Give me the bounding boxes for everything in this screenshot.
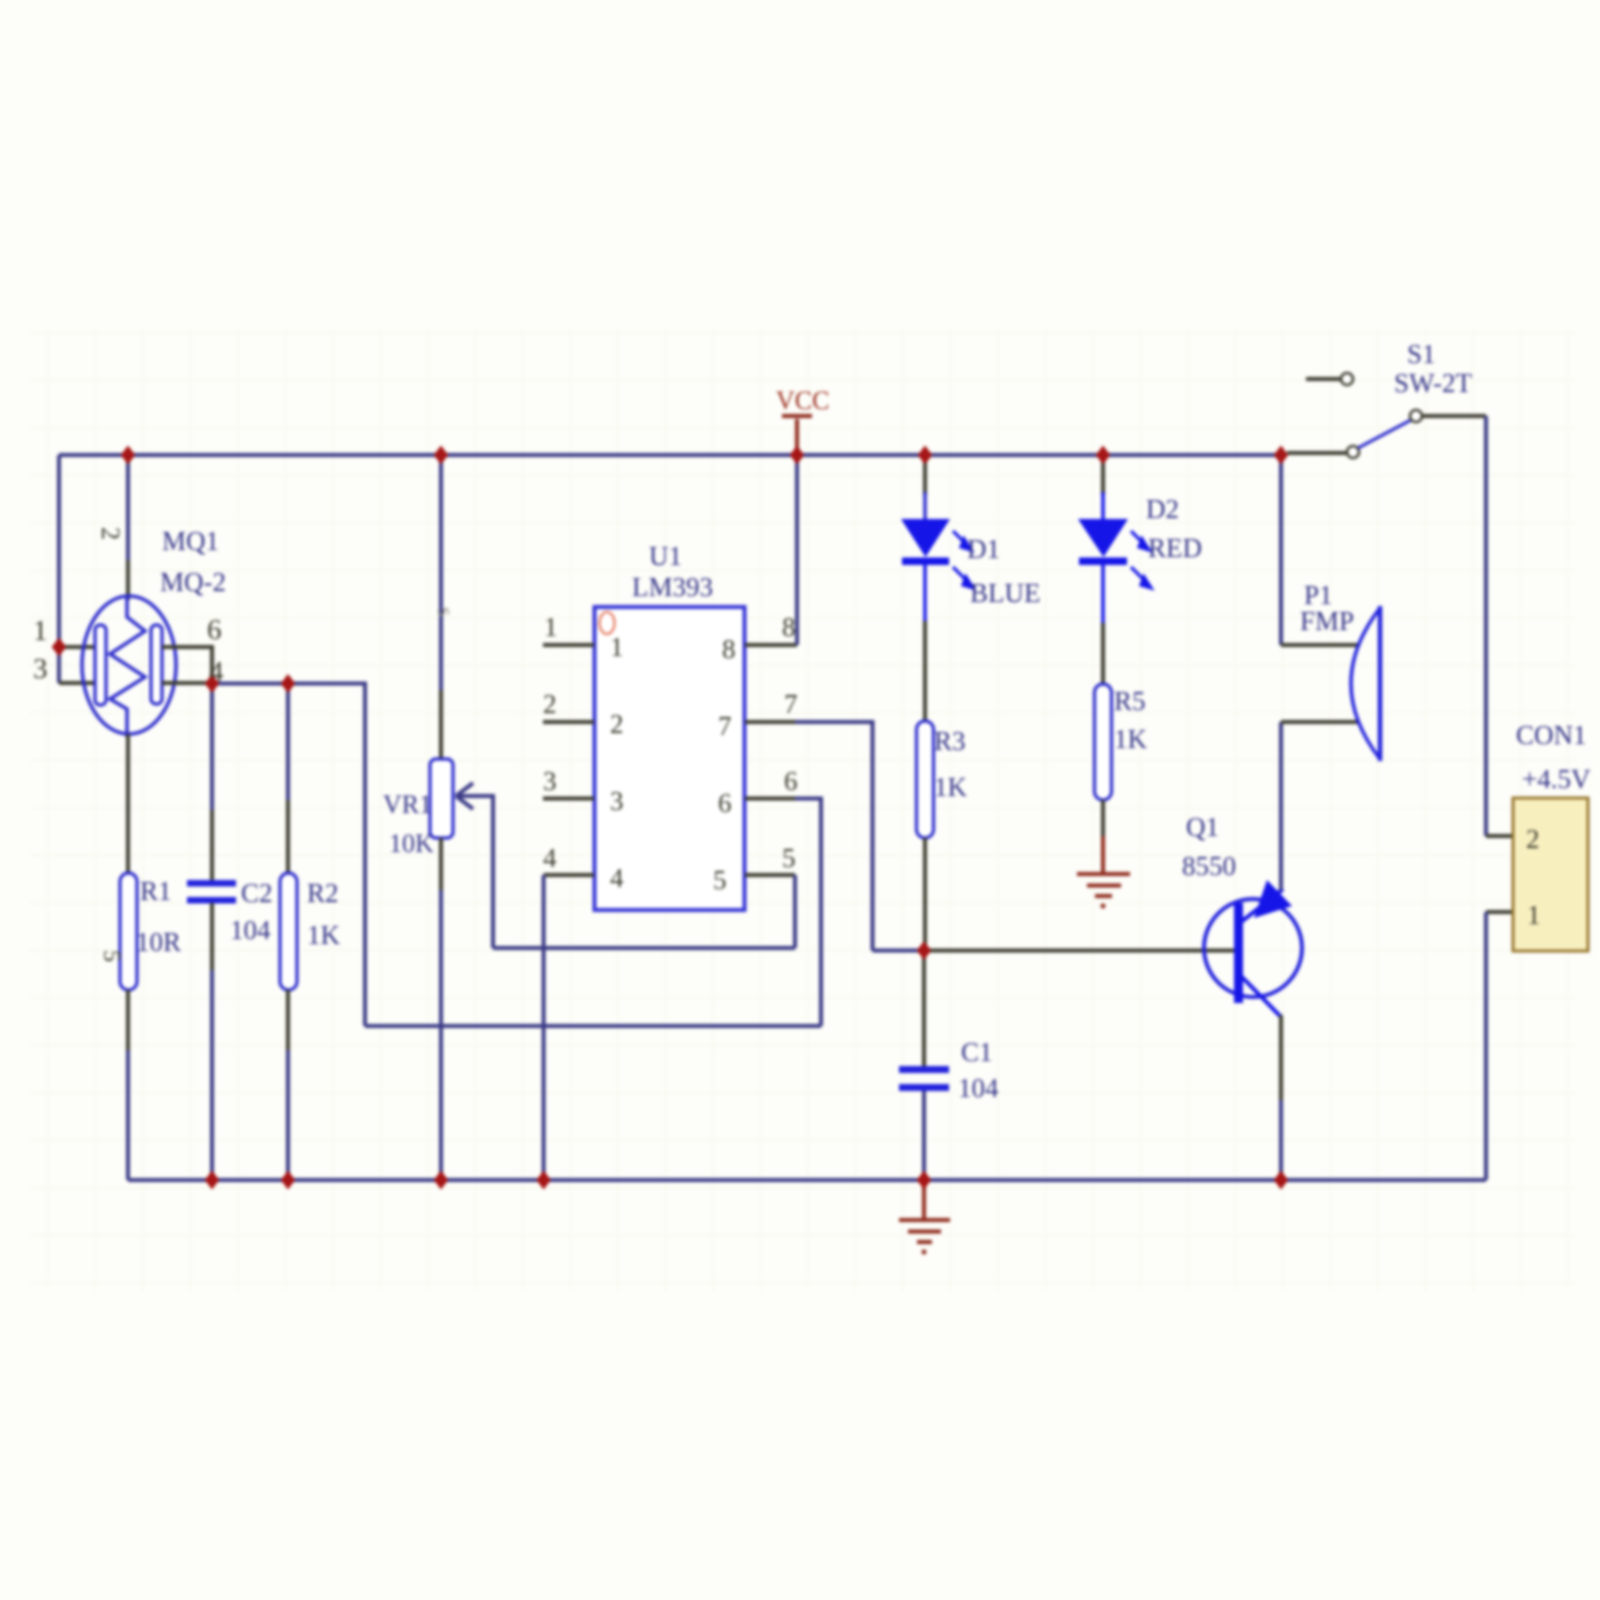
svg-text:3: 3 [610, 786, 624, 816]
svg-text:1K: 1K [307, 920, 341, 950]
svg-text:BLUE: BLUE [970, 578, 1041, 608]
svg-text:6: 6 [784, 766, 798, 796]
svg-text:MQ-2: MQ-2 [160, 567, 226, 597]
svg-text:2: 2 [1526, 824, 1540, 854]
svg-text:4: 4 [610, 863, 624, 893]
svg-text:104: 104 [230, 915, 271, 945]
svg-text:LM393: LM393 [632, 572, 713, 602]
svg-text:1: 1 [1527, 900, 1541, 930]
svg-text:CON1: CON1 [1516, 720, 1587, 750]
svg-text:10R: 10R [136, 927, 181, 957]
svg-text:4: 4 [209, 656, 224, 688]
svg-text:+4.5V: +4.5V [1522, 764, 1591, 794]
svg-text:VCC: VCC [776, 386, 829, 415]
svg-text:VR1: VR1 [383, 790, 432, 819]
svg-text:5: 5 [98, 950, 124, 962]
svg-text:R2: R2 [307, 878, 339, 908]
svg-text:R5: R5 [1114, 686, 1146, 716]
svg-text:D1: D1 [967, 534, 1000, 564]
svg-text:5: 5 [782, 843, 796, 873]
svg-text:RED: RED [1148, 533, 1202, 563]
svg-text:S1: S1 [1407, 339, 1436, 369]
svg-text:C2: C2 [241, 878, 273, 908]
svg-text:C1: C1 [961, 1037, 993, 1067]
svg-text:1K: 1K [1114, 724, 1148, 754]
svg-text:2: 2 [610, 709, 624, 739]
svg-text:8550: 8550 [1182, 851, 1236, 881]
svg-text:1: 1 [33, 615, 48, 647]
svg-text:6: 6 [207, 614, 222, 646]
svg-text:4: 4 [543, 843, 557, 873]
svg-text:6: 6 [718, 788, 732, 818]
svg-text:7: 7 [784, 689, 798, 719]
svg-text:104: 104 [958, 1073, 999, 1103]
svg-text:D2: D2 [1146, 494, 1179, 524]
svg-text:MQ1: MQ1 [162, 526, 219, 556]
svg-text:8: 8 [782, 612, 796, 642]
svg-text:R1: R1 [140, 876, 172, 906]
svg-text:3: 3 [33, 653, 48, 685]
svg-text:R3: R3 [934, 726, 966, 756]
svg-text:SW-2T: SW-2T [1394, 368, 1473, 398]
svg-text:Q1: Q1 [1186, 812, 1219, 842]
svg-text:1: 1 [610, 632, 624, 662]
svg-text:1K: 1K [934, 772, 968, 802]
svg-text:U1: U1 [649, 541, 682, 571]
svg-text:FMP: FMP [1300, 606, 1354, 636]
svg-text:8: 8 [722, 634, 736, 664]
svg-text:2: 2 [96, 527, 125, 540]
svg-text:5: 5 [713, 865, 727, 895]
svg-text:7: 7 [718, 711, 732, 741]
svg-text:3: 3 [543, 766, 557, 796]
svg-text:2: 2 [543, 689, 557, 719]
svg-text:10K: 10K [389, 829, 434, 858]
svg-text:1: 1 [544, 612, 558, 642]
